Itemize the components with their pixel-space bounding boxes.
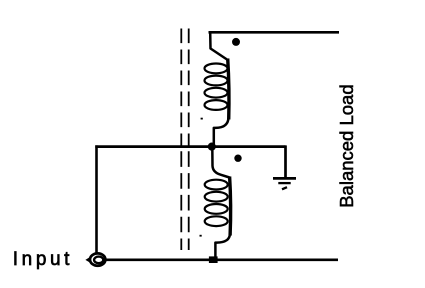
core dashed line right (lower) bbox=[188, 151, 190, 250]
winding L1 loop 3 bbox=[205, 88, 228, 98]
winding L2 bottom lead bbox=[215, 234, 230, 259]
ground wire bbox=[284, 145, 287, 177]
bottom output wire bbox=[104, 258, 338, 261]
winding L2 top lead bbox=[212, 147, 229, 178]
stray mark 2 bbox=[200, 235, 202, 237]
winding L2 loop 2 bbox=[205, 192, 228, 202]
input feed wire bbox=[95, 145, 98, 252]
core dashed line left (upper) bbox=[180, 29, 182, 147]
ground bar 2 bbox=[278, 182, 290, 184]
input connector bbox=[85, 253, 105, 265]
centre-tap wire bbox=[95, 145, 285, 148]
top output wire bbox=[209, 31, 340, 34]
centre-tap junction bbox=[208, 143, 216, 151]
svg-text:Input: Input bbox=[13, 249, 73, 270]
stray mark 1 bbox=[201, 118, 203, 120]
winding L1 loop 4 bbox=[205, 100, 228, 110]
core dashed line left (lower) bbox=[180, 151, 182, 250]
winding L2 loop 1 bbox=[205, 180, 228, 190]
winding L1 loop 1 bbox=[205, 64, 228, 74]
ground bar 3 bbox=[282, 187, 287, 189]
bottom junction bbox=[209, 256, 218, 263]
winding L2 loop 3 bbox=[205, 204, 228, 214]
winding L1 top lead bbox=[210, 33, 227, 60]
phase dot L1 bbox=[232, 38, 240, 46]
winding L1 spine bbox=[228, 59, 229, 120]
phase dot L2 bbox=[234, 155, 241, 162]
core dashed line right (upper) bbox=[188, 29, 190, 147]
winding L2 loop 4 bbox=[205, 216, 228, 226]
winding L1 loop 2 bbox=[205, 76, 228, 86]
ground bar 1 bbox=[273, 177, 296, 180]
winding L1 bottom lead bbox=[214, 118, 229, 146]
winding L2 spine bbox=[230, 177, 231, 236]
svg-text:Balanced Load: Balanced Load bbox=[336, 84, 357, 207]
